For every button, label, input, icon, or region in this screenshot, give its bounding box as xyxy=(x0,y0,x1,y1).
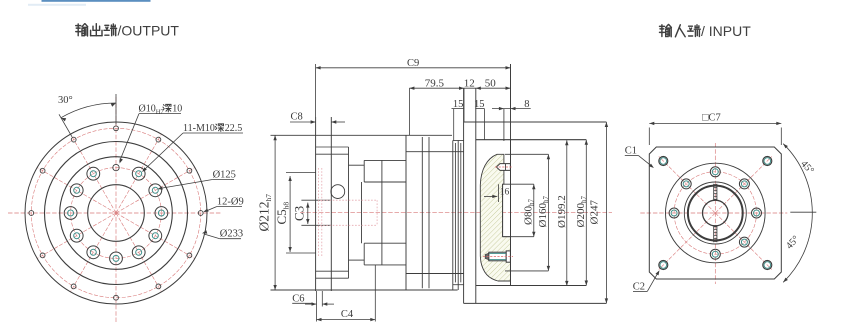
dim C8 xyxy=(290,121,316,123)
dim dia200h7 xyxy=(585,140,587,286)
svg-text:C2: C2 xyxy=(633,282,645,293)
h: dia160 top + ext xyxy=(505,153,548,155)
v: bore bottom face xyxy=(502,184,504,237)
dim C3 xyxy=(307,203,309,224)
dim dia160h7 xyxy=(547,154,549,271)
label 11-M10 shen22.5 xyxy=(183,132,243,134)
svg-text:10: 10 xyxy=(172,104,182,115)
svg-text:79.5: 79.5 xyxy=(425,78,445,90)
dim dia247 xyxy=(605,122,607,303)
clamp hub circle (thick) xyxy=(688,186,743,241)
svg-text:12-Ø9: 12-Ø9 xyxy=(217,197,244,208)
v: seal ring xyxy=(452,141,454,291)
v: spacer xyxy=(457,141,459,291)
svg-text:C1: C1 xyxy=(625,146,637,157)
v: seal ring 2 xyxy=(454,143,456,282)
centerline vertical xyxy=(714,143,716,284)
svg-text:Ø199.2: Ø199.2 xyxy=(556,195,568,228)
h: ring step top xyxy=(406,151,464,153)
h: bolt hole line b2 xyxy=(316,270,349,272)
svg-text:50: 50 xyxy=(485,78,497,90)
v: step edge bottom xyxy=(363,243,365,265)
pilot boss circle xyxy=(666,163,766,263)
45 deg dimensions xyxy=(790,211,816,213)
label dia125 xyxy=(213,179,234,181)
dia10 pin hole top xyxy=(113,164,119,170)
dim C4 xyxy=(374,265,376,322)
h: plate bottom edge + ext xyxy=(464,302,607,304)
svg-text:15: 15 xyxy=(453,99,464,110)
svg-text:12: 12 xyxy=(464,78,475,90)
centerline horizontal xyxy=(8,212,222,214)
top blue tab underline xyxy=(42,0,151,2)
outer circle dia233 xyxy=(25,122,207,304)
svg-text:C4: C4 xyxy=(341,309,354,320)
svg-text:Ø233: Ø233 xyxy=(220,229,243,240)
svg-text:C3: C3 xyxy=(292,206,307,221)
dim 15 15 8 xyxy=(453,109,455,141)
centerline horizontal xyxy=(640,212,787,214)
svg-text:/ INPUT: / INPUT xyxy=(701,23,751,39)
hatched housing section xyxy=(480,154,510,281)
flange dowel hole circle xyxy=(331,185,345,199)
30 deg angle dimension xyxy=(59,114,72,137)
dim C9 xyxy=(315,64,317,117)
hub outer circle xyxy=(684,182,746,244)
svg-text:15: 15 xyxy=(474,99,485,110)
label dia10H7 shen10 xyxy=(139,113,181,115)
svg-text:Ø247: Ø247 xyxy=(589,200,601,225)
v: unit right face xyxy=(510,140,512,286)
h: step2 top xyxy=(349,164,365,166)
label C1 xyxy=(625,154,639,156)
h: step top xyxy=(364,159,406,161)
h: shaft bottom xyxy=(364,242,406,244)
bolt circle dia220 xyxy=(31,128,200,297)
v: flange right face xyxy=(330,117,332,291)
v: bearing ring xyxy=(421,137,423,288)
h: seal top xyxy=(453,140,464,142)
flange step circle 2 xyxy=(60,157,173,270)
v: step edge top xyxy=(363,160,365,182)
centerline vertical xyxy=(115,97,117,322)
dim dia212h7 xyxy=(274,135,276,290)
bolt circle dia125 xyxy=(71,168,162,259)
v: housing step xyxy=(348,147,350,278)
h: ring step bottom xyxy=(406,273,464,275)
label C2 xyxy=(633,290,647,292)
dim C6 xyxy=(316,291,318,307)
flange step circle xyxy=(45,142,188,285)
label dia233 xyxy=(220,238,241,240)
h: body top edge + dia212 ext xyxy=(271,134,453,136)
h: shaft top xyxy=(364,181,406,183)
v: bearing ring 2 xyxy=(428,137,430,288)
11x M10 tapped holes xyxy=(155,207,168,220)
clamping slot bottom xyxy=(713,226,715,242)
dim 16 xyxy=(484,195,497,197)
dim dia80h7 xyxy=(533,184,535,237)
h: dia200 top edge + ext xyxy=(476,139,587,141)
h: flange bore top xyxy=(301,199,331,201)
12x dia9 holes xyxy=(198,211,203,216)
svg-text:30°: 30° xyxy=(58,95,73,106)
v: input plate left face + ext xyxy=(463,89,465,304)
h: step bottom xyxy=(364,264,406,266)
input bore circle xyxy=(703,200,729,226)
h: bolt hole line t1 xyxy=(316,146,349,148)
v: spacer 2 xyxy=(460,143,462,282)
dim dia199.2 xyxy=(566,140,568,286)
h: C5 ext bottom xyxy=(286,252,316,254)
svg-text:11-M10: 11-M10 xyxy=(183,123,215,134)
svg-text:22.5: 22.5 xyxy=(225,123,243,134)
v: gear edge xyxy=(381,160,383,265)
grease plug top xyxy=(496,164,510,171)
radial centerline spokes xyxy=(116,168,194,213)
h: bolt hole line t2 xyxy=(316,153,349,155)
h: flange bore bottom xyxy=(301,224,331,226)
title output (chinese) xyxy=(76,24,88,36)
h: plate top edge + dia247 ext xyxy=(464,121,607,123)
h: dia160 bottom + ext xyxy=(505,270,548,272)
diagonal centerlines xyxy=(715,213,772,270)
h: C5 ext top xyxy=(286,172,316,174)
svg-text:C8: C8 xyxy=(291,112,303,123)
centerline xyxy=(300,212,612,214)
hidden motor shaft bore (pink dotted) xyxy=(318,168,320,257)
v: input plate right face + ext xyxy=(475,89,477,304)
square flange outline xyxy=(649,147,781,279)
dim square C7 xyxy=(648,128,650,146)
h: body bottom edge xyxy=(271,289,458,291)
title input (chinese) xyxy=(660,25,672,37)
h: dia80 bottom + ext xyxy=(503,236,534,238)
svg-text:C9: C9 xyxy=(407,58,419,69)
svg-text:8: 8 xyxy=(524,99,529,110)
label 12-dia9 xyxy=(217,206,242,208)
svg-text:Ø125: Ø125 xyxy=(213,170,236,181)
v: body right face xyxy=(405,135,407,290)
input bolt circle xyxy=(674,172,756,254)
4 corner mounting holes xyxy=(763,261,772,270)
dim 79.5 / 12 / 50 xyxy=(463,88,465,122)
socket head bolt bottom xyxy=(489,252,506,261)
v: right face ext to C9 xyxy=(510,64,512,140)
h: dia80 top + ext xyxy=(503,183,534,185)
h: step2 bottom xyxy=(349,259,365,261)
svg-text:C6: C6 xyxy=(292,294,304,305)
svg-text:□C7: □C7 xyxy=(702,113,721,124)
h: seal bottom xyxy=(453,284,464,286)
center bore circle xyxy=(88,185,145,242)
dim C5h8 xyxy=(289,176,291,252)
svg-text:/OUTPUT: /OUTPUT xyxy=(118,22,180,38)
clamping slot top xyxy=(713,184,715,200)
svg-text:16: 16 xyxy=(500,188,510,198)
h: dia200 bottom edge + ext xyxy=(476,285,587,287)
v: internal hub xyxy=(361,182,363,243)
h: bolt hole line b1 xyxy=(316,277,349,279)
v: 8-dim ext / hole edge xyxy=(503,109,505,141)
v: flange left face + ext xyxy=(315,117,317,291)
7 input bolt holes xyxy=(752,208,762,218)
v: 79.5 ext xyxy=(408,88,410,135)
